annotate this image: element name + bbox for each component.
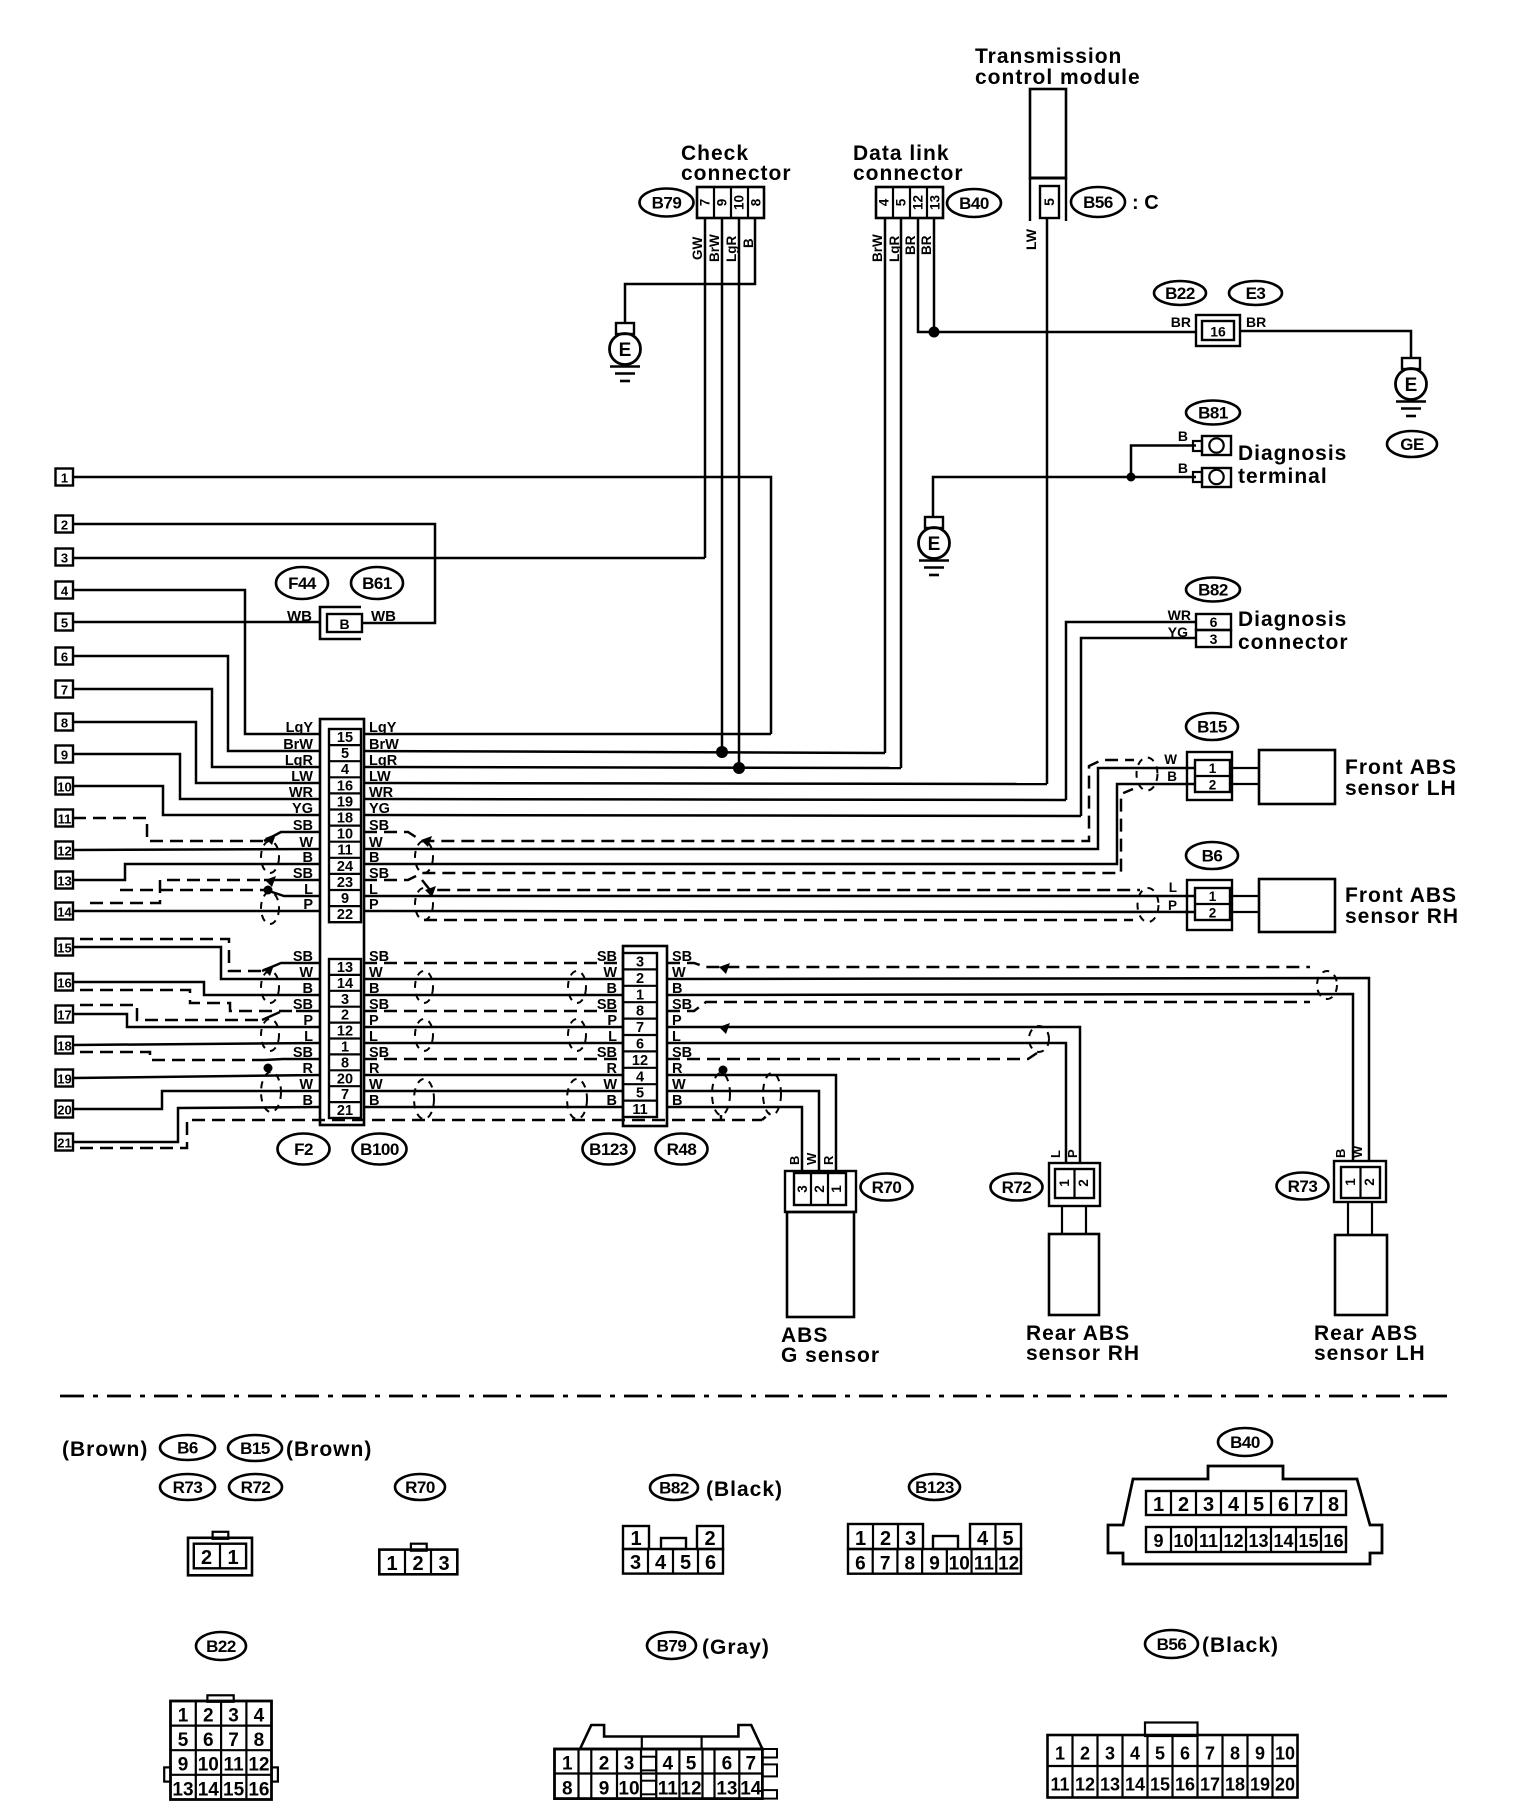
svg-text:LgR: LgR xyxy=(724,236,739,262)
wire B pin8 to ground xyxy=(625,218,755,323)
wire BR pin13 down xyxy=(933,218,936,332)
twisted pair symbol xyxy=(261,841,279,873)
diagnosis connector pins 6 3 xyxy=(1196,614,1231,647)
wire terminal 4 to pin 15 left xyxy=(73,590,320,734)
wire terminal 17 to pin 12 xyxy=(73,1014,320,1027)
connector B15 oval legend xyxy=(228,1435,282,1461)
svg-text:7: 7 xyxy=(636,1020,644,1036)
svg-text:P: P xyxy=(1168,898,1177,913)
wire GW pin7 down to terminal 3 row xyxy=(704,218,707,558)
svg-text:SB: SB xyxy=(293,1045,313,1061)
svg-text:14: 14 xyxy=(1125,1775,1145,1795)
terminal 2 xyxy=(56,516,74,533)
svg-text:B15: B15 xyxy=(1197,718,1227,737)
svg-text:12: 12 xyxy=(998,1554,1019,1575)
svg-text:B81: B81 xyxy=(1198,404,1228,423)
svg-text:17: 17 xyxy=(57,1008,71,1023)
svg-text:2: 2 xyxy=(201,1547,212,1569)
svg-text:2: 2 xyxy=(636,971,644,987)
terminal 8 xyxy=(56,714,74,731)
junction dot pin 8 xyxy=(264,1064,273,1073)
svg-text:GW: GW xyxy=(690,236,705,260)
svg-text:LW: LW xyxy=(1023,228,1039,250)
wire row 19 WR right xyxy=(364,799,1066,800)
svg-text:B79: B79 xyxy=(657,1637,687,1656)
svg-text:16: 16 xyxy=(337,778,353,794)
svg-text:5: 5 xyxy=(636,1086,644,1102)
svg-text:9: 9 xyxy=(178,1755,189,1776)
connector R70 oval legend xyxy=(395,1474,445,1500)
connector B82 oval legend xyxy=(650,1475,698,1500)
svg-text:2: 2 xyxy=(1178,1494,1189,1516)
terminal 11 xyxy=(56,810,74,827)
svg-text:Front ABS: Front ABS xyxy=(1345,884,1457,907)
twisted pair symbol G sensor 1 xyxy=(712,1073,730,1115)
ground GE oval xyxy=(1387,431,1437,457)
svg-text:SB: SB xyxy=(597,1045,617,1061)
svg-text:R70: R70 xyxy=(872,1178,902,1197)
svg-text:9: 9 xyxy=(341,891,349,907)
connector B22 oval legend xyxy=(196,1632,246,1660)
svg-text:: C: : C xyxy=(1132,192,1159,214)
svg-text:3: 3 xyxy=(636,955,644,971)
svg-text:W: W xyxy=(603,1077,617,1093)
twisted pair symbol B6 xyxy=(1138,888,1159,922)
svg-text:8: 8 xyxy=(341,1055,349,1071)
svg-text:18: 18 xyxy=(1225,1775,1245,1795)
svg-text:11: 11 xyxy=(632,1102,647,1118)
svg-text:6: 6 xyxy=(636,1037,644,1053)
wire labels B W rear LH xyxy=(1333,1145,1365,1158)
wire R to G sensor xyxy=(667,1075,836,1171)
svg-text:1: 1 xyxy=(855,1528,866,1550)
connector B81 oval xyxy=(1186,401,1240,425)
wire row 23 shield to B15 bottom xyxy=(364,789,1133,880)
svg-text:W: W xyxy=(299,965,313,981)
svg-text:16: 16 xyxy=(1175,1775,1195,1795)
front ABS sensor RH body xyxy=(1232,879,1335,932)
twisted pair symbol rear LH xyxy=(1317,971,1337,999)
twisted pair symbol xyxy=(568,971,586,1003)
terminal 17 xyxy=(56,1006,74,1023)
wire shield terminal 16 to pin 2 xyxy=(80,990,296,1011)
wire W to rear LH xyxy=(667,978,1369,1161)
svg-text:1: 1 xyxy=(1153,1494,1164,1516)
svg-text:2: 2 xyxy=(1076,1179,1091,1187)
twisted pair symbol xyxy=(415,841,433,873)
ABS G sensor body xyxy=(787,1212,854,1317)
wire shield rear RH xyxy=(667,1053,1037,1059)
svg-text:control module: control module xyxy=(975,66,1141,89)
twisted pair symbol xyxy=(261,971,279,1003)
svg-text:1: 1 xyxy=(227,1547,238,1569)
wire terminal 1 to pin 15 right xyxy=(73,477,771,734)
svg-text:5: 5 xyxy=(686,1754,697,1775)
wire B to G sensor xyxy=(667,1107,802,1171)
svg-text:4: 4 xyxy=(663,1754,674,1775)
svg-text:16: 16 xyxy=(57,976,71,991)
svg-text:1: 1 xyxy=(1057,1179,1072,1187)
svg-text:R: R xyxy=(303,1061,314,1077)
joint connector 16 xyxy=(1196,315,1240,346)
connector B123 R48 body xyxy=(623,946,667,1126)
svg-text:B40: B40 xyxy=(1230,1433,1260,1452)
svg-text:5: 5 xyxy=(341,746,349,762)
svg-text:10: 10 xyxy=(732,195,747,210)
svg-text:P: P xyxy=(607,1013,617,1029)
svg-text:(Brown): (Brown) xyxy=(62,1438,148,1461)
svg-text:24: 24 xyxy=(337,859,353,875)
svg-text:8: 8 xyxy=(749,198,764,206)
arrow P rear RH xyxy=(719,1023,730,1034)
connector R73 oval legend xyxy=(160,1474,215,1500)
svg-text:15: 15 xyxy=(223,1779,245,1800)
wire shield terminal 18 to pin 8 xyxy=(80,1052,264,1060)
svg-text:4: 4 xyxy=(254,1706,265,1727)
svg-text:4: 4 xyxy=(61,584,69,599)
svg-text:12: 12 xyxy=(1075,1775,1095,1795)
wire terminal 14 to pin 22 xyxy=(73,910,320,913)
svg-text:B40: B40 xyxy=(959,194,989,213)
wire labels GW BrW LgR B xyxy=(690,234,756,262)
svg-text:3: 3 xyxy=(1105,1744,1115,1764)
wire terminal 11 to pin 10 shield xyxy=(73,818,264,841)
svg-text:13: 13 xyxy=(57,874,71,889)
svg-text:15: 15 xyxy=(57,941,71,956)
connector B40 oval xyxy=(947,189,1001,217)
svg-text:13: 13 xyxy=(1248,1531,1268,1551)
connector B6 oval xyxy=(1186,842,1238,869)
wire shield to pin 23 xyxy=(90,880,264,903)
svg-text:15: 15 xyxy=(1150,1775,1170,1795)
svg-text:4: 4 xyxy=(877,198,892,206)
wire row 16 LW right xyxy=(364,783,1047,784)
wire labels BrW LgR BR BR xyxy=(870,234,934,262)
svg-text:(Black): (Black) xyxy=(1202,1634,1279,1657)
svg-text:SB: SB xyxy=(293,949,313,965)
wire diagnosis terminal upper xyxy=(1131,446,1196,478)
wire row 10 shield to B15 xyxy=(364,760,1134,841)
wire shield terminal 21 long xyxy=(80,1120,762,1148)
svg-text:L: L xyxy=(304,1029,313,1045)
svg-text:R72: R72 xyxy=(1002,1178,1032,1197)
strip wire labels left upper xyxy=(283,720,313,913)
connector R73 oval xyxy=(1277,1173,1329,1200)
wire shield B6 bottom xyxy=(424,919,1133,922)
wire terminal 8 to pin 16 xyxy=(73,722,320,783)
svg-text:R: R xyxy=(607,1061,618,1077)
check connector pins 7 9 10 8 xyxy=(697,187,764,218)
section divider xyxy=(60,1395,1455,1398)
svg-text:7: 7 xyxy=(746,1754,757,1775)
svg-text:1: 1 xyxy=(1055,1744,1065,1764)
svg-text:10: 10 xyxy=(57,780,71,795)
svg-text:1: 1 xyxy=(562,1754,573,1775)
svg-text:10: 10 xyxy=(1173,1531,1193,1551)
wire diagnosis terminal lower to ground xyxy=(933,477,1196,517)
wire rows F2 to B123 xyxy=(364,963,623,1107)
shield hook G sensor 1 xyxy=(720,1113,723,1120)
svg-text:6: 6 xyxy=(203,1730,214,1751)
svg-text:12: 12 xyxy=(632,1053,648,1069)
wire shield terminal 17 xyxy=(80,1005,262,1020)
svg-text:13: 13 xyxy=(337,960,353,976)
ABS G sensor connector xyxy=(785,1171,856,1212)
front ABS sensor LH connector xyxy=(1187,752,1232,800)
wire row 24 B to B15 pin 2 xyxy=(364,784,1196,864)
svg-text:F2: F2 xyxy=(294,1140,313,1159)
svg-text:8: 8 xyxy=(1230,1744,1240,1764)
connector B22 pinout xyxy=(164,1695,278,1800)
svg-text:3: 3 xyxy=(341,992,349,1008)
svg-text:B100: B100 xyxy=(360,1140,399,1159)
twisted pair symbol xyxy=(261,1019,279,1051)
terminal 20 xyxy=(56,1101,74,1118)
svg-text:L: L xyxy=(1048,1150,1063,1158)
svg-text:B: B xyxy=(607,981,617,997)
svg-text:2: 2 xyxy=(61,518,68,533)
svg-text:B: B xyxy=(787,1156,802,1165)
svg-text:4: 4 xyxy=(977,1528,989,1550)
svg-text:13: 13 xyxy=(1100,1775,1120,1795)
arrow shield B6 xyxy=(425,886,436,897)
svg-text:7: 7 xyxy=(880,1554,891,1575)
svg-text:21: 21 xyxy=(337,1103,353,1119)
wire row 18 YG right xyxy=(364,815,1081,816)
svg-text:5: 5 xyxy=(61,616,68,631)
wire terminal 16 to pin 3 xyxy=(73,982,320,995)
svg-text:R72: R72 xyxy=(241,1478,271,1497)
wire P to rear RH xyxy=(667,1027,1080,1163)
svg-text:3: 3 xyxy=(630,1552,641,1574)
svg-text:4: 4 xyxy=(655,1552,667,1574)
connector B79 oval legend xyxy=(647,1632,696,1659)
strip wire labels right upper xyxy=(369,720,399,913)
svg-text:12: 12 xyxy=(248,1755,269,1776)
svg-text:B: B xyxy=(303,981,313,997)
junction dot R xyxy=(719,1066,728,1075)
fuse F44 oval xyxy=(276,567,328,599)
terminal 16 xyxy=(56,974,74,991)
wire W to G sensor xyxy=(667,1091,819,1171)
svg-text:BR: BR xyxy=(919,235,934,255)
svg-text:2: 2 xyxy=(812,1185,827,1193)
data link connector pins 4 5 12 13 xyxy=(876,187,943,218)
svg-text:BR: BR xyxy=(903,235,918,255)
svg-text:connector: connector xyxy=(1238,631,1349,654)
svg-text:19: 19 xyxy=(337,794,353,810)
svg-text:15: 15 xyxy=(1298,1531,1318,1551)
junction dot BR xyxy=(929,327,940,338)
connector B56 pinout xyxy=(1048,1723,1298,1798)
svg-text:R: R xyxy=(821,1155,836,1165)
svg-text:BrW: BrW xyxy=(870,234,885,262)
svg-text:10: 10 xyxy=(1275,1744,1295,1764)
transmission control module box xyxy=(1030,89,1066,178)
svg-text:7: 7 xyxy=(341,1087,349,1103)
svg-text:GE: GE xyxy=(1400,435,1424,454)
rear ABS sensor LH legs xyxy=(1348,1202,1372,1235)
wire terminal 13 to pin 24 xyxy=(73,864,320,880)
svg-text:B82: B82 xyxy=(1198,581,1228,600)
svg-text:19: 19 xyxy=(1250,1775,1270,1795)
svg-text:B56: B56 xyxy=(1157,1635,1187,1654)
svg-text:B: B xyxy=(339,616,349,632)
B123 wire labels right xyxy=(672,949,692,1109)
svg-text:2: 2 xyxy=(341,1008,349,1024)
svg-text:11: 11 xyxy=(224,1755,245,1776)
wire LgR pin5 down to row 4 xyxy=(900,218,903,768)
svg-text:13: 13 xyxy=(716,1779,737,1800)
junction dot diagnosis xyxy=(1127,473,1136,482)
svg-text:10: 10 xyxy=(618,1779,639,1800)
fuse B61 oval xyxy=(351,567,403,599)
svg-text:R73: R73 xyxy=(1288,1177,1318,1196)
svg-text:12: 12 xyxy=(680,1779,701,1800)
wire shield terminal 15 to pin 13 xyxy=(80,939,262,971)
front ABS sensor RH connector xyxy=(1187,880,1232,930)
ground E right xyxy=(1396,358,1427,416)
svg-text:B6: B6 xyxy=(177,1439,198,1458)
svg-text:2: 2 xyxy=(1362,1178,1377,1186)
terminal 12 xyxy=(56,842,74,859)
svg-text:W: W xyxy=(299,835,313,851)
wire YG to row 18 xyxy=(1081,638,1196,816)
wire row 4 LgR right xyxy=(364,767,901,768)
svg-text:6: 6 xyxy=(705,1552,716,1574)
svg-text:SB: SB xyxy=(293,866,313,882)
svg-text:W: W xyxy=(299,1077,313,1093)
svg-text:B22: B22 xyxy=(206,1637,236,1656)
wire row 22 P to B6 pin 2 xyxy=(364,911,1196,912)
svg-text:16: 16 xyxy=(1323,1531,1343,1551)
wire BrW pin9 down to row 5 xyxy=(721,218,724,753)
connector B123 oval xyxy=(583,1134,635,1165)
strip wire labels right lower xyxy=(369,949,389,1109)
svg-text:14: 14 xyxy=(1273,1531,1293,1551)
svg-text:sensor LH: sensor LH xyxy=(1314,1342,1426,1365)
svg-text:12: 12 xyxy=(57,844,71,859)
svg-text:7: 7 xyxy=(61,683,68,698)
svg-text:20: 20 xyxy=(1275,1775,1295,1795)
svg-text:2: 2 xyxy=(880,1528,891,1550)
svg-text:2: 2 xyxy=(1209,778,1217,793)
svg-text:2: 2 xyxy=(704,1528,715,1550)
junction dot row 5 xyxy=(716,746,728,758)
svg-text:BR: BR xyxy=(1246,314,1266,330)
arrow pin 13 xyxy=(263,965,274,976)
svg-text:P: P xyxy=(303,897,313,913)
svg-text:B123: B123 xyxy=(589,1140,628,1159)
twisted pair symbol B15 xyxy=(1137,758,1158,791)
terminal 1 xyxy=(56,469,74,486)
svg-text:6: 6 xyxy=(1278,1494,1289,1516)
svg-text:3: 3 xyxy=(905,1528,916,1550)
rear ABS sensor LH body xyxy=(1335,1235,1387,1315)
svg-text:4: 4 xyxy=(636,1069,644,1085)
svg-text:(Black): (Black) xyxy=(706,1478,783,1501)
wire terminal 21 to pin 21 xyxy=(73,1107,320,1142)
svg-text:9: 9 xyxy=(599,1779,610,1800)
svg-text:12: 12 xyxy=(911,195,926,210)
wire BR to ground GE xyxy=(1240,331,1411,358)
wire row 11 W to B15 pin 1 xyxy=(364,768,1196,849)
svg-text:LgR: LgR xyxy=(285,753,314,769)
svg-text:14: 14 xyxy=(198,1779,220,1800)
svg-text:8: 8 xyxy=(1328,1494,1339,1516)
terminal 21 xyxy=(56,1134,74,1151)
svg-text:terminal: terminal xyxy=(1238,465,1328,488)
twisted pair symbol xyxy=(261,892,279,924)
svg-text:3: 3 xyxy=(228,1706,239,1727)
wire row 15 LgY right xyxy=(364,733,771,736)
svg-text:E: E xyxy=(619,340,632,361)
svg-text:5: 5 xyxy=(1002,1528,1013,1550)
svg-text:2: 2 xyxy=(203,1706,214,1727)
ground E check connector xyxy=(610,323,641,381)
terminal 3 xyxy=(56,549,74,566)
connector E3 oval xyxy=(1229,281,1282,305)
svg-text:LgY: LgY xyxy=(286,720,314,736)
svg-text:R48: R48 xyxy=(667,1140,697,1159)
svg-text:Transmission: Transmission xyxy=(975,45,1122,68)
svg-text:2: 2 xyxy=(412,1553,423,1575)
svg-text:9: 9 xyxy=(715,199,730,207)
terminal 15 xyxy=(56,939,74,956)
svg-text:17: 17 xyxy=(1200,1775,1220,1795)
connector B15 oval xyxy=(1186,713,1238,740)
wire terminal 6 to pin 5 xyxy=(73,656,320,751)
wire BR pin12 to joint 16 xyxy=(918,218,1196,332)
svg-text:1: 1 xyxy=(178,1706,189,1727)
diagnosis terminal lower xyxy=(1193,468,1231,487)
wire stub to pin 9 xyxy=(120,889,264,892)
svg-text:14: 14 xyxy=(740,1779,762,1800)
wire labels B W R G sensor xyxy=(787,1152,836,1165)
svg-text:3: 3 xyxy=(61,551,68,566)
svg-text:8: 8 xyxy=(562,1779,573,1800)
svg-text:SB: SB xyxy=(597,949,617,965)
svg-text:11: 11 xyxy=(974,1554,995,1575)
svg-text:P: P xyxy=(303,1013,313,1029)
wire terminal 9 to pin 19 xyxy=(73,754,320,799)
svg-text:14: 14 xyxy=(337,976,353,992)
svg-text:P: P xyxy=(1065,1149,1080,1158)
svg-text:E: E xyxy=(928,534,941,555)
wire shield rear LH top xyxy=(667,963,1310,967)
wire labels L P rear RH xyxy=(1048,1149,1080,1158)
svg-text:(Brown): (Brown) xyxy=(286,1438,372,1461)
svg-text:13: 13 xyxy=(172,1779,193,1800)
svg-text:W: W xyxy=(603,965,617,981)
connector B56 oval xyxy=(1071,187,1125,217)
svg-text:sensor LH: sensor LH xyxy=(1345,777,1457,800)
svg-text:14: 14 xyxy=(57,905,72,920)
svg-text:E: E xyxy=(1405,375,1418,396)
junction dot row 4 xyxy=(733,762,745,774)
svg-text:B: B xyxy=(1178,460,1188,476)
svg-text:L: L xyxy=(1169,880,1177,895)
svg-text:1: 1 xyxy=(61,471,68,486)
svg-text:7: 7 xyxy=(698,199,713,207)
front ABS sensor LH body xyxy=(1232,750,1335,804)
twisted pair symbol xyxy=(415,888,433,920)
twisted pair symbol rear RH xyxy=(1029,1026,1049,1052)
svg-text:1: 1 xyxy=(829,1185,844,1193)
svg-text:23: 23 xyxy=(337,875,353,891)
svg-text:18: 18 xyxy=(337,811,353,827)
svg-text:connector: connector xyxy=(681,162,792,185)
